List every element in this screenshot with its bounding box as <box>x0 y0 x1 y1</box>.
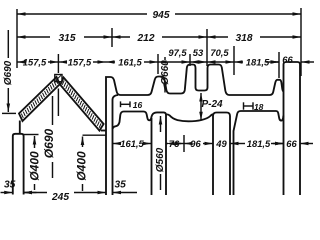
dimension 315 <box>17 36 50 38</box>
dimension 245 <box>24 192 47 194</box>
bar 49 rib <box>213 113 230 196</box>
svg-text:53: 53 <box>193 47 204 58</box>
left inclined bar <box>19 77 60 121</box>
dimension P-24 <box>200 93 202 120</box>
dimension 318 <box>207 36 228 38</box>
sag dome between ribs <box>166 114 213 121</box>
extension line x279 <box>278 52 280 78</box>
apex square <box>55 75 62 82</box>
dimension 96 <box>184 143 188 145</box>
leg B right side <box>113 95 119 195</box>
dimension 66 middle <box>271 143 284 145</box>
extension line x234 <box>233 46 235 75</box>
svg-text:35: 35 <box>115 180 127 191</box>
dimension 157,5 second <box>58 61 62 63</box>
dimension 161,5 middle <box>113 143 118 145</box>
dimension 35 left <box>1 192 13 194</box>
svg-text:181,5: 181,5 <box>247 138 271 149</box>
svg-text:Ø690: Ø690 <box>42 128 56 158</box>
svg-text:157,5: 157,5 <box>23 57 47 68</box>
dimension 70,5 <box>207 61 234 63</box>
dimension Ø560 in bar 76 <box>160 116 162 132</box>
svg-text:157,5: 157,5 <box>68 57 92 68</box>
svg-text:76: 76 <box>169 138 180 149</box>
svg-text:161,5: 161,5 <box>120 138 144 149</box>
right bar foot connector <box>101 130 106 132</box>
svg-text:161,5: 161,5 <box>118 57 142 68</box>
dimension Ø660 top middle <box>164 57 166 60</box>
svg-text:945: 945 <box>153 10 170 21</box>
svg-text:49: 49 <box>215 138 227 149</box>
dimension 212 <box>112 36 130 38</box>
bar 76 left side <box>151 118 153 195</box>
extension tick x112 <box>111 28 113 47</box>
extension tick x58.4 apex <box>57 54 59 73</box>
extension line at leg A top left <box>2 112 16 114</box>
extension tick x184 middle row <box>183 135 185 152</box>
leg A (left rib 35) <box>13 134 24 195</box>
svg-text:P-24: P-24 <box>201 99 223 110</box>
extension line x190 <box>189 54 191 66</box>
dimension 16 <box>121 103 131 105</box>
right inclined bar <box>60 78 103 131</box>
dimension Ø690 under apex <box>52 96 54 125</box>
dimension 35 right <box>113 192 138 194</box>
dimension 53 <box>190 61 207 63</box>
top band profile <box>106 65 283 196</box>
extension line at leg B top left <box>83 134 107 136</box>
svg-text:245: 245 <box>51 192 69 203</box>
dimension Ø400 left <box>34 136 36 148</box>
right bar hatching <box>62 80 101 127</box>
apex centre line <box>57 89 59 117</box>
dimension 97,5 <box>158 61 190 63</box>
svg-text:96: 96 <box>190 138 201 149</box>
dimension 157,5 left <box>17 61 21 63</box>
svg-text:16: 16 <box>133 100 143 110</box>
dimension 181,5 middle <box>230 143 245 145</box>
svg-text:Ø560: Ø560 <box>155 147 166 172</box>
dimension 18 <box>244 105 254 107</box>
bar 66 (right tall rib) <box>284 62 301 195</box>
dimension Ø690 far left <box>7 30 9 58</box>
svg-text:318: 318 <box>236 33 253 44</box>
svg-text:70,5: 70,5 <box>210 47 229 58</box>
svg-text:35: 35 <box>4 180 16 191</box>
dimension 945 <box>17 13 147 15</box>
extension line x158 <box>157 54 159 74</box>
svg-text:Ø690: Ø690 <box>3 60 14 85</box>
left bar foot connector <box>19 121 21 135</box>
svg-text:97,5: 97,5 <box>168 47 187 58</box>
dimension Ø400 right <box>82 137 84 148</box>
left bar hatching <box>21 80 58 118</box>
svg-text:Ø400: Ø400 <box>27 151 41 181</box>
dimension 76 <box>166 143 168 145</box>
dimension 161,5 top <box>106 61 115 63</box>
extension line x207 <box>206 29 208 66</box>
svg-text:18: 18 <box>254 102 264 112</box>
extension line at leg A top right <box>24 134 39 136</box>
dimension 66 top <box>266 61 279 63</box>
svg-text:Ø400: Ø400 <box>74 151 88 181</box>
svg-text:66: 66 <box>286 138 297 149</box>
dimension 181,5 top <box>234 61 243 63</box>
svg-text:315: 315 <box>59 33 76 44</box>
extension line left x17 <box>16 9 18 68</box>
svg-text:Ø660: Ø660 <box>160 60 171 85</box>
lower hump profile <box>113 112 167 196</box>
svg-text:212: 212 <box>137 33 155 44</box>
slot edge and flat top with notch <box>234 111 284 195</box>
extension line right x301 <box>300 8 302 76</box>
